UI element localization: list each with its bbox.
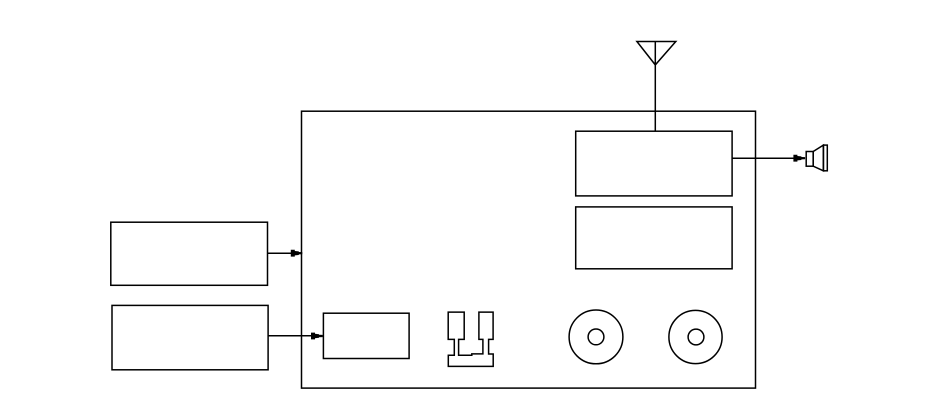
antenna — [637, 42, 676, 65]
block: input box 2 (bottom left) — [112, 305, 268, 369]
knob 2 outer circle — [669, 310, 722, 363]
block: second box (below receiver) — [576, 207, 732, 269]
block: small inner box — [323, 313, 409, 358]
wire: receiver to speaker — [732, 157, 794, 159]
wire: antenna feed line — [654, 42, 656, 132]
arrowhead: into inner block — [311, 333, 323, 340]
outer box: device enclosure — [302, 111, 756, 388]
knob 1 outer circle — [569, 310, 623, 364]
battery contact icon — [448, 312, 493, 366]
speaker: driver rect — [806, 152, 813, 167]
speaker: rim rect — [823, 145, 827, 171]
block: receiver box (top right inside) — [576, 131, 732, 196]
wire: box2 to inner block — [268, 335, 312, 337]
knob 2 inner circle — [688, 329, 704, 345]
wire: box1 to enclosure — [268, 252, 293, 254]
speaker: horn trapezoid — [813, 145, 823, 171]
arrowhead: to speaker — [793, 155, 805, 162]
arrowhead: into enclosure — [291, 250, 303, 257]
block: input box 1 (top left) — [111, 222, 268, 285]
knob 1 inner circle — [588, 329, 604, 345]
